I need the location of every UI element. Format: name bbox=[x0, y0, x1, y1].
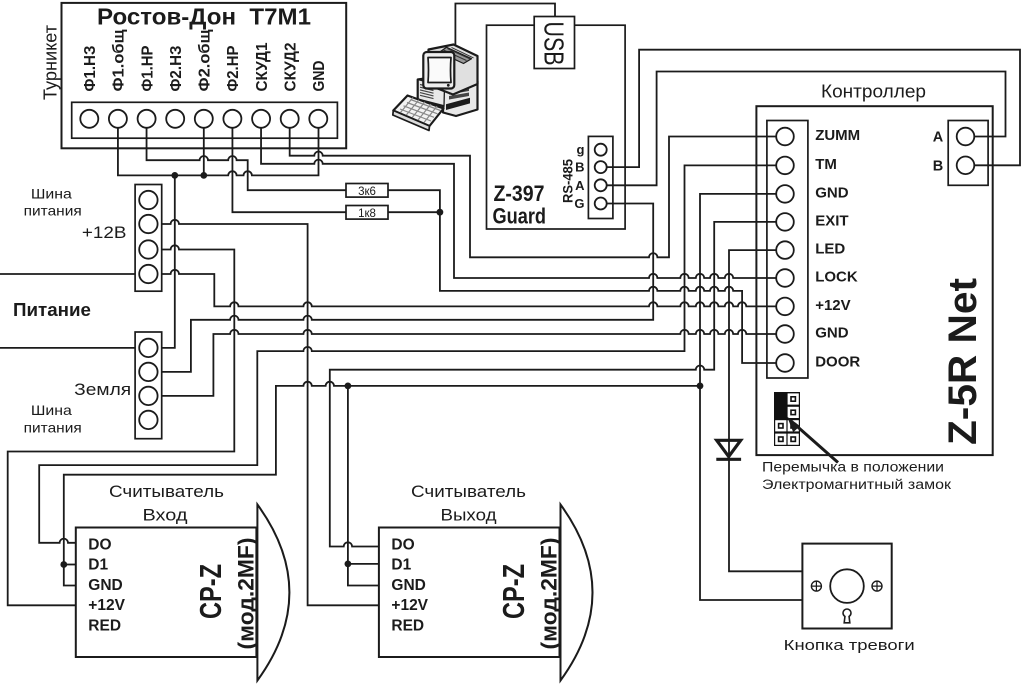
wire net: common bus Ф1.общ/Ф2.общ/GND bbox=[118, 128, 319, 176]
svg-text:CP-Z: CP-Z bbox=[193, 564, 228, 619]
svg-text:+12V: +12V bbox=[88, 597, 125, 614]
wire +12V bus to reader 2 +12V bbox=[162, 220, 379, 605]
svg-text:LOCK: LOCK bbox=[815, 268, 858, 285]
wire controller TM to reader 1 DO bbox=[39, 165, 776, 542]
node GND to reader 2 junction bbox=[345, 383, 352, 390]
wire RS-485 A to controller A bbox=[607, 72, 1006, 186]
svg-text:RED: RED bbox=[391, 617, 424, 634]
svg-text:GND: GND bbox=[88, 577, 122, 594]
turnstile terminal 3 (Ф1.НР) bbox=[138, 110, 156, 128]
svg-text:g: g bbox=[577, 142, 585, 157]
controller terminal +12V bbox=[776, 298, 794, 316]
ground bus terminal 4 bbox=[139, 411, 157, 429]
controller terminal EXIT bbox=[776, 213, 794, 231]
wire computer to USB port of Z-397 bbox=[455, 4, 555, 46]
controller terminal strip bbox=[767, 121, 808, 379]
controller A/B terminal block bbox=[948, 121, 988, 186]
svg-text:+12V: +12V bbox=[391, 597, 428, 614]
svg-text:(мод.2MF): (мод.2MF) bbox=[537, 538, 562, 650]
svg-text:DOOR: DOOR bbox=[815, 353, 860, 370]
controller terminal B bbox=[957, 157, 975, 175]
wire Ф1.НР to resistor 3к6 bbox=[147, 128, 346, 190]
wire +12V bus to reader 1 +12V bbox=[8, 245, 235, 605]
svg-text:GND: GND bbox=[391, 577, 425, 594]
svg-text:A: A bbox=[575, 178, 585, 193]
wire ground bus to RS-485 G bbox=[162, 204, 654, 372]
turnstile terminal 2 (Ф1.общ) bbox=[109, 110, 127, 128]
+12V bus terminal 1 bbox=[139, 191, 157, 209]
svg-text:1к8: 1к8 bbox=[358, 208, 376, 220]
+12V bus terminal 2 bbox=[139, 215, 157, 233]
svg-text:G: G bbox=[574, 196, 584, 211]
diode VD1 bbox=[716, 440, 741, 459]
+12V bus terminal 4 bbox=[139, 265, 157, 283]
wire Ф2.НР to resistor 1к8 bbox=[232, 128, 346, 212]
svg-text:LED: LED bbox=[815, 241, 845, 258]
resistor R1 3к6 body bbox=[346, 184, 388, 198]
wire 1к8 output to resistor node bbox=[388, 211, 440, 213]
controller terminal LED bbox=[776, 241, 794, 259]
converter Z-397 Guard box bbox=[487, 25, 626, 229]
reader CP-Z (Выход) dome (side view) bbox=[561, 505, 593, 681]
svg-text:Электромагнитный замок: Электромагнитный замок bbox=[762, 477, 951, 492]
turnstile terminal 5 (Ф2.общ) bbox=[195, 110, 213, 128]
svg-text:Земля: Земля bbox=[74, 380, 131, 399]
svg-text:Перемычка в положении: Перемычка в положении bbox=[762, 460, 944, 475]
svg-text:питания: питания bbox=[24, 203, 82, 219]
wire Ф2.общ drop to common bus bbox=[203, 128, 205, 176]
ground bus terminal 3 bbox=[139, 387, 157, 405]
wire controller LED to diode and alarm button bbox=[729, 250, 802, 571]
wire 3к6 output to resistor node bbox=[388, 190, 440, 212]
wire СКУД2 to controller ZUMM bbox=[290, 128, 777, 257]
controller terminal GND bbox=[776, 325, 794, 343]
wire controller EXIT to reader 2 DO bbox=[330, 222, 777, 547]
svg-text:Кнопка тревоги: Кнопка тревоги bbox=[784, 637, 915, 654]
svg-text:GND: GND bbox=[311, 61, 328, 92]
turnstile unit Ростов-Дон Т7М1 box bbox=[62, 3, 347, 148]
wire ground bus to controller GND bbox=[162, 330, 777, 396]
svg-text:B: B bbox=[575, 160, 584, 175]
svg-text:Ф2.НР: Ф2.НР bbox=[225, 45, 242, 91]
alarm button face bbox=[811, 569, 882, 623]
wire reader 2 D1 strap bbox=[348, 563, 379, 565]
reader CP-Z (Вход) dome (side view) bbox=[257, 505, 289, 681]
power bus block +12В bbox=[135, 185, 162, 292]
node reader 2 D1 junction bbox=[345, 561, 352, 568]
turnstile terminal 1 (Ф1.НЗ) bbox=[80, 110, 98, 128]
ground bus terminal 2 bbox=[139, 363, 157, 381]
svg-text:Ф1.НР: Ф1.НР bbox=[139, 45, 156, 91]
svg-text:B: B bbox=[933, 158, 943, 174]
svg-text:Контроллер: Контроллер bbox=[821, 82, 926, 102]
svg-text:Ф2.общ: Ф2.общ bbox=[197, 29, 214, 92]
ground bus terminal 1 bbox=[139, 339, 157, 357]
svg-text:DO: DO bbox=[391, 536, 414, 553]
controller terminal ZUMM bbox=[776, 128, 794, 146]
svg-text:Шина: Шина bbox=[31, 402, 72, 418]
svg-text:Питание: Питание bbox=[13, 300, 91, 320]
svg-text:питания: питания bbox=[24, 419, 82, 435]
svg-text:EXIT: EXIT bbox=[815, 212, 848, 229]
svg-text:TM: TM bbox=[815, 156, 837, 173]
svg-text:Ростов-Дон Т7М1: Ростов-Дон Т7М1 bbox=[97, 3, 311, 29]
svg-text:Выход: Выход bbox=[441, 506, 497, 525]
controller terminal GND bbox=[776, 185, 794, 203]
svg-text:RED: RED bbox=[88, 617, 121, 634]
node GND branch junction bbox=[697, 383, 704, 390]
svg-text:Z-397: Z-397 bbox=[494, 181, 545, 206]
svg-text:Ф2.НЗ: Ф2.НЗ bbox=[168, 46, 185, 92]
+12V bus terminal 3 bbox=[139, 240, 157, 258]
svg-text:СКУД2: СКУД2 bbox=[283, 42, 300, 91]
wire GND branch to readers bbox=[64, 382, 700, 586]
RS-485 terminal block of Z-397 bbox=[588, 136, 613, 218]
turnstile terminal 9 (GND) bbox=[309, 110, 327, 128]
svg-text:3к6: 3к6 bbox=[358, 186, 376, 198]
svg-text:СКУД1: СКУД1 bbox=[254, 42, 271, 91]
svg-text:D1: D1 bbox=[88, 556, 108, 573]
wire controller GND to alarm button bbox=[700, 194, 802, 600]
svg-text:A: A bbox=[933, 130, 944, 146]
svg-text:+12В: +12В bbox=[82, 224, 127, 242]
wire RS-485 B to controller B bbox=[607, 50, 1020, 167]
reader CP-Z (Выход) box bbox=[379, 528, 560, 658]
wire СКУД1 to controller LOCK bbox=[261, 128, 776, 278]
node reader 1 D1 junction bbox=[60, 561, 67, 568]
RS-485 terminal B bbox=[595, 161, 607, 173]
RS-485 terminal A bbox=[595, 179, 607, 191]
svg-text:+12V: +12V bbox=[815, 297, 850, 314]
turnstile terminal 4 (Ф2.НЗ) bbox=[166, 110, 184, 128]
svg-text:USB: USB bbox=[538, 22, 569, 66]
wire common bus to ground bus bbox=[162, 175, 175, 348]
wire power supply ground input bbox=[0, 347, 135, 349]
svg-text:Ф1.общ: Ф1.общ bbox=[111, 29, 128, 92]
svg-text:Guard: Guard bbox=[493, 203, 547, 228]
controller Z-5R Net box bbox=[756, 106, 992, 455]
computer (PC system with monitor and keyboard) bbox=[393, 45, 478, 131]
USB connector box bbox=[534, 17, 574, 69]
RS-485 terminal G bbox=[595, 198, 607, 210]
turnstile terminal strip bbox=[72, 102, 338, 138]
RS-485 terminal g bbox=[595, 144, 607, 156]
turnstile terminal 7 (СКУД1) bbox=[252, 110, 270, 128]
svg-text:GND: GND bbox=[815, 324, 849, 341]
turnstile terminal 8 (СКУД2) bbox=[281, 110, 299, 128]
turnstile terminal 6 (Ф2.НР) bbox=[223, 110, 241, 128]
node Ф2.общ bus junction bbox=[200, 172, 207, 179]
jumper pointer arrow bbox=[791, 421, 838, 463]
wire power supply +12V input bbox=[0, 273, 135, 275]
controller terminal A bbox=[957, 128, 975, 146]
svg-text:Считыватель: Считыватель bbox=[411, 482, 526, 501]
svg-text:Считыватель: Считыватель bbox=[109, 482, 224, 501]
wire reader 1 D1 strap bbox=[64, 564, 76, 566]
node bus to ground junction bbox=[171, 172, 178, 179]
svg-text:Вход: Вход bbox=[143, 506, 188, 525]
wire resistor node to controller DOOR bbox=[440, 212, 777, 363]
alarm button box bbox=[802, 544, 891, 629]
svg-text:Шина: Шина bbox=[31, 185, 72, 201]
svg-text:Z-5R Net: Z-5R Net bbox=[941, 278, 985, 445]
svg-text:Турникет: Турникет bbox=[41, 25, 61, 100]
svg-text:DO: DO bbox=[88, 536, 111, 553]
wire GND branch to reader 2 GND bbox=[348, 386, 379, 586]
controller terminal TM bbox=[776, 157, 794, 175]
svg-text:D1: D1 bbox=[391, 556, 411, 573]
resistor R2 1к8 body bbox=[346, 206, 388, 220]
svg-text:RS-485: RS-485 bbox=[560, 159, 575, 203]
svg-text:ZUMM: ZUMM bbox=[815, 127, 860, 144]
controller terminal DOOR bbox=[776, 354, 794, 372]
wire +12V bus to controller +12V bbox=[162, 270, 777, 307]
svg-text:GND: GND bbox=[815, 184, 849, 201]
controller terminal LOCK bbox=[776, 269, 794, 287]
svg-text:Ф1.НЗ: Ф1.НЗ bbox=[82, 45, 99, 91]
svg-text:(мод.2MF): (мод.2MF) bbox=[234, 538, 259, 650]
node resistor node junction bbox=[437, 209, 444, 216]
jumper block (pin header) bbox=[774, 392, 800, 446]
svg-text:CP-Z: CP-Z bbox=[496, 564, 531, 619]
ground bus block Земля bbox=[135, 332, 162, 439]
reader CP-Z (Вход) box bbox=[76, 528, 257, 658]
